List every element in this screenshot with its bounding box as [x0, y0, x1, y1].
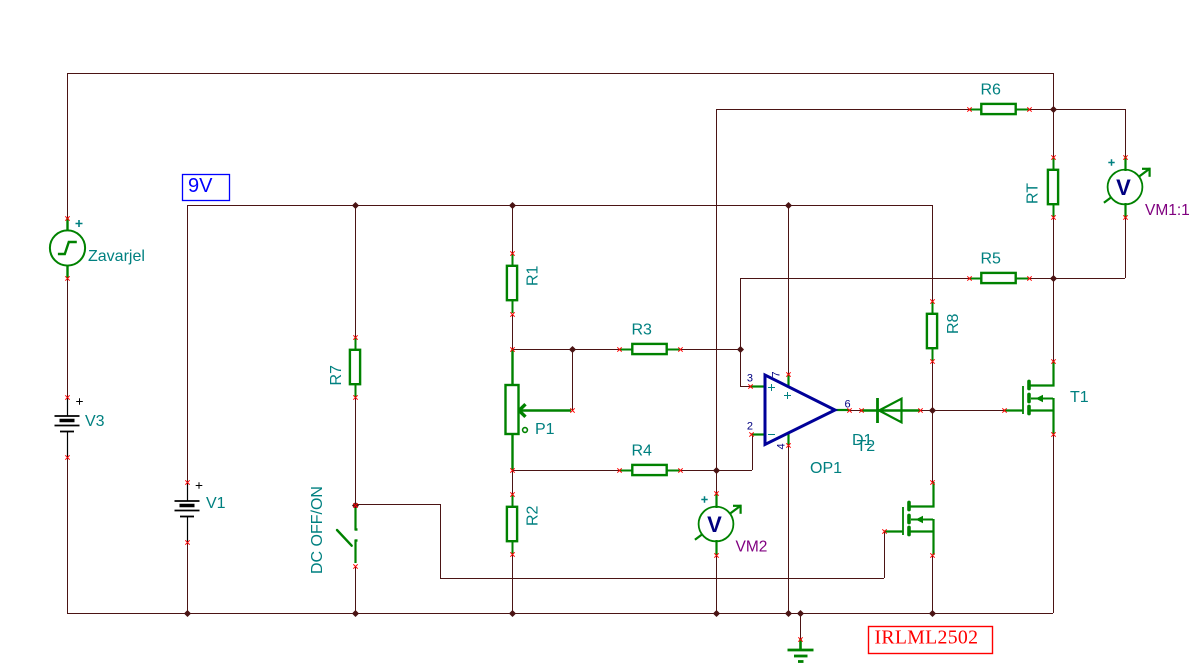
svg-text:R5: R5: [981, 251, 1002, 268]
svg-text:VM2: VM2: [736, 539, 768, 556]
svg-text:R1: R1: [525, 265, 542, 286]
svg-text:V: V: [1116, 175, 1131, 200]
svg-text:R7: R7: [328, 365, 345, 386]
svg-text:R6: R6: [981, 82, 1002, 99]
svg-text:R2: R2: [525, 505, 542, 526]
svg-text:DC OFF/ON: DC OFF/ON: [309, 486, 326, 574]
svg-text:R8: R8: [945, 313, 962, 334]
svg-text:V1: V1: [206, 495, 226, 512]
svg-text:9V: 9V: [188, 175, 213, 197]
svg-text:IRLML2502: IRLML2502: [875, 627, 979, 649]
svg-text:V: V: [707, 512, 722, 537]
svg-text:V3: V3: [85, 413, 105, 430]
svg-text:Zavarjel: Zavarjel: [88, 248, 145, 265]
svg-text:T2: T2: [857, 438, 876, 455]
svg-text:R3: R3: [632, 322, 653, 339]
svg-text:4: 4: [776, 443, 788, 449]
svg-text:OP1: OP1: [810, 460, 842, 477]
svg-text:2: 2: [747, 421, 753, 433]
svg-text:VM1:1: VM1:1: [1145, 202, 1190, 219]
svg-text:P1: P1: [535, 421, 555, 438]
svg-text:3: 3: [747, 373, 753, 385]
svg-text:R4: R4: [632, 443, 653, 460]
svg-text:7: 7: [771, 371, 783, 377]
svg-text:RT: RT: [1025, 183, 1042, 204]
svg-text:T1: T1: [1070, 389, 1089, 406]
